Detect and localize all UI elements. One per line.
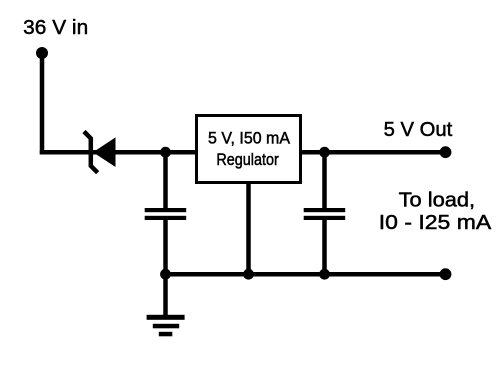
- svg-text:To load,: To load,: [399, 189, 476, 212]
- svg-text:I0 - I25 mA: I0 - I25 mA: [379, 211, 492, 234]
- svg-text:Regulator: Regulator: [216, 150, 279, 169]
- svg-text:5 V, I50 mA: 5 V, I50 mA: [208, 129, 291, 148]
- svg-text:36 V in: 36 V in: [23, 16, 88, 39]
- svg-text:5 V Out: 5 V Out: [384, 118, 453, 141]
